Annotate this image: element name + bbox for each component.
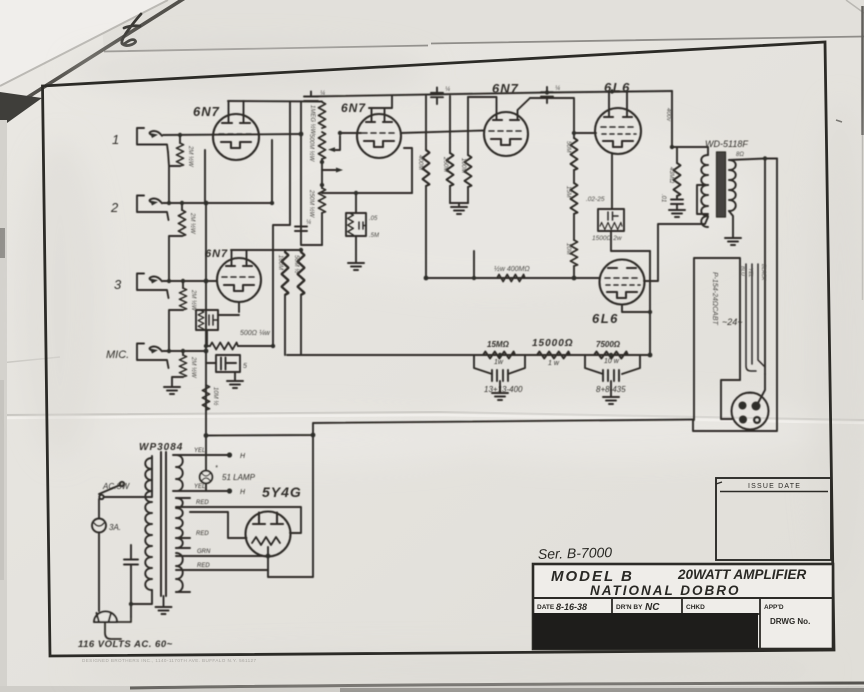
wire HV red top to V7 plate: [190, 507, 301, 533]
svg-text:51 LAMP: 51 LAMP: [222, 473, 256, 482]
svg-text:6N7: 6N7: [341, 101, 366, 115]
svg-text:250M ½W: 250M ½W: [308, 189, 315, 219]
scanner shadow wedge under folded corner: [0, 0, 188, 116]
wire primary UL loop: [697, 185, 708, 214]
svg-text:116 VOLTS AC. 60~: 116 VOLTS AC. 60~: [78, 639, 173, 650]
transformer T-PWR secondary heater winding: [176, 455, 190, 491]
tube V7 5Y4G rectifier: [246, 512, 291, 557]
wire V3 coupling down: [273, 102, 290, 346]
paper top edge (scan): [100, 0, 864, 52]
resistor R5 10M (below MIC node): [203, 385, 210, 410]
transformer T-PWR secondary rectifier filament winding: [176, 553, 190, 592]
svg-text:1w: 1w: [494, 359, 504, 366]
resistor R22 43M: [674, 147, 681, 196]
wire bus junction to heater row: [205, 436, 207, 492]
wire B+ to output transformer: [672, 91, 708, 155]
ground (C9): [603, 397, 619, 404]
capacitor C6 (coupling top 2): [541, 87, 553, 103]
svg-text:400v: 400v: [665, 108, 671, 122]
wire bias row: [287, 354, 650, 356]
svg-text:¼: ¼: [555, 86, 560, 92]
wire B plus bottom bus: [206, 420, 693, 436]
ground (MIC resistor): [164, 387, 180, 394]
black blob bottom row: [533, 613, 758, 649]
resistor R20 15000 ohm: [537, 352, 570, 359]
svg-text:NC: NC: [645, 602, 660, 613]
svg-text:ISSUE DATE: ISSUE DATE: [748, 483, 801, 490]
small value labels: [187, 86, 766, 405]
svg-text:DATE: DATE: [537, 604, 555, 611]
wire J3 grid line: [163, 280, 217, 282]
svg-text:43MΩ: 43MΩ: [668, 167, 674, 184]
socket SPK speaker plug: [732, 393, 769, 430]
ground (mic cap): [227, 381, 243, 388]
svg-text:100M: 100M: [460, 158, 466, 173]
wire V2 grid left hook: [340, 132, 361, 134]
tube V2 6N7: [357, 114, 401, 158]
svg-text:P-154-24ΩCABT: P-154-24ΩCABT: [711, 272, 718, 326]
wire secondary top to socket column: [729, 159, 777, 161]
wire V6 plate path to transformer: [644, 217, 708, 281]
ground (C3): [348, 263, 364, 270]
top-right corner fold: [846, 0, 864, 13]
wire grid return row: [322, 192, 412, 194]
svg-text:8Ω: 8Ω: [736, 152, 744, 158]
svg-text:CHKD: CHKD: [686, 604, 705, 611]
resistor R9 250M: [447, 96, 454, 203]
capacitor C11 line filter: [124, 545, 138, 604]
svg-text:2M ½W: 2M ½W: [187, 145, 194, 168]
tube V1 6N7: [213, 114, 259, 160]
potentiometer P2 wiper arrow: [322, 168, 343, 173]
capacitor C4 box (V3 cathode): [196, 302, 239, 346]
wire primary bottom leg: [131, 590, 152, 604]
svg-text:2M ½W: 2M ½W: [189, 212, 196, 235]
svg-text:3: 3: [114, 277, 122, 292]
svg-text:WP3084: WP3084: [139, 442, 183, 453]
resistor R16 10M: [571, 240, 578, 278]
wire HV red bottom to V7 plate 2: [190, 512, 247, 538]
resistor R7 250M: [319, 159, 326, 245]
capacitor C5 (coupling top): [431, 88, 443, 105]
transformer T-OUT primary: [701, 155, 708, 227]
right scan edge: [861, 6, 864, 135]
folded corner flap: [0, 0, 168, 86]
resistor R8 (coupling load): [423, 96, 430, 278]
resistor R15 15M: [571, 183, 578, 240]
svg-text:5: 5: [243, 363, 247, 370]
speaker cable wires: [746, 264, 765, 371]
svg-text:2M ½W: 2M ½W: [190, 356, 197, 379]
svg-text:NATIONAL DOBRO: NATIONAL DOBRO: [590, 583, 741, 598]
svg-text:8-16-38: 8-16-38: [556, 602, 587, 612]
svg-text:RED: RED: [196, 500, 209, 506]
wire V1 loop to J2 line: [205, 140, 272, 203]
svg-text:BLU: BLU: [739, 266, 745, 276]
tube V3 6N7: [217, 258, 261, 302]
svg-text:YEL: YEL: [194, 484, 205, 490]
wire secondary bottom to ground: [729, 211, 733, 237]
svg-text:10M ½: 10M ½: [212, 387, 219, 405]
resistor R2 2M (input 2): [169, 203, 186, 281]
capacitor C3 box (V2 cathode bypass): [346, 193, 366, 262]
capacitor C2 on column B: [295, 227, 307, 232]
pilot lamp 51: [200, 471, 213, 484]
wire V7 filament bottom to B+: [268, 435, 313, 577]
tube V6 6L6: [600, 260, 645, 305]
transformer T-OUT core: [717, 152, 726, 217]
jack J2 input 2: [137, 196, 169, 221]
title block outer box: [533, 564, 833, 649]
svg-text:.01: .01: [660, 194, 666, 202]
svg-text:DR'N BY: DR'N BY: [616, 604, 643, 611]
resistor R21 7500 ohm: [594, 352, 628, 359]
resistor R10 250M: [465, 97, 472, 203]
field coil box: [694, 258, 740, 420]
wire V1 plate leads: [229, 101, 244, 123]
bottom scan edge: [0, 683, 864, 692]
capacitor C10 .01: [671, 196, 683, 209]
svg-text:¼: ¼: [445, 87, 450, 93]
arrow H heater 1: [227, 452, 232, 457]
wire V5 grid tap: [574, 132, 596, 134]
info row cells: [533, 598, 760, 649]
svg-text:WD-5118F: WD-5118F: [705, 139, 748, 149]
wire V5 plate leads: [609, 91, 627, 117]
jack J4 MIC: [137, 344, 169, 369]
wire filament winding red return: [190, 569, 268, 571]
potentiometer P1 500M volume: [319, 132, 341, 159]
wire V3 plate leads: [232, 250, 247, 266]
jack J3 input 3: [137, 274, 169, 299]
main node column: [205, 203, 207, 436]
svg-text:¼: ¼: [306, 220, 311, 226]
resistor R13 500 ohm row: [206, 343, 273, 350]
svg-text:.05: .05: [369, 216, 378, 222]
svg-text:20WATT AMPLIFIER: 20WATT AMPLIFIER: [677, 567, 807, 582]
svg-text:DESIGNED BROTHERS INC., 1140-1: DESIGNED BROTHERS INC., 1140-1170TH AVE.…: [82, 658, 257, 663]
svg-text:1MEG ½W: 1MEG ½W: [309, 105, 316, 136]
wire V3 plate bus: [231, 249, 301, 251]
tube V4 6N7 phase inverter: [484, 112, 528, 156]
wire voice coil pair down: [765, 159, 777, 431]
wire MIC line: [163, 350, 206, 352]
ground (C8): [492, 393, 508, 400]
svg-text:2M ½W: 2M ½W: [190, 289, 197, 312]
svg-text:15MΩ: 15MΩ: [487, 340, 510, 349]
wire V2 plate leads: [369, 96, 392, 122]
wire J2 line: [163, 202, 272, 204]
transformer T-PWR primary coil: [145, 458, 152, 590]
wire splitter output row: [426, 277, 600, 279]
wire to socket pin: [758, 374, 765, 403]
svg-text:250M: 250M: [442, 156, 448, 172]
svg-text:Ser. B-7000: Ser. B-7000: [538, 544, 613, 562]
svg-text:10M: 10M: [565, 243, 571, 255]
wire V4 cathode drop: [473, 251, 475, 278]
svg-text:6N7: 6N7: [205, 248, 228, 260]
svg-text:GRN: GRN: [197, 549, 211, 555]
svg-text:1500Ω 2w: 1500Ω 2w: [592, 235, 623, 242]
svg-text:RED: RED: [197, 563, 210, 569]
svg-text:5Y4G: 5Y4G: [262, 484, 302, 500]
svg-text:~24~: ~24~: [722, 317, 743, 327]
divider: [533, 597, 833, 599]
svg-text:YEL: YEL: [747, 268, 753, 278]
wire heater row 2: [173, 490, 231, 492]
svg-text:6N7: 6N7: [193, 104, 220, 119]
svg-text:.02-25: .02-25: [586, 196, 605, 203]
wire V6 cathode to bias row: [622, 305, 650, 356]
resistor R4 (MIC grid): [172, 351, 187, 386]
pencil squiggle: [122, 14, 141, 46]
svg-text:.5M: .5M: [369, 233, 379, 239]
svg-text:½w 400MΩ: ½w 400MΩ: [494, 265, 530, 273]
wire V4 right plate feed: [530, 98, 574, 138]
svg-text:1: 1: [112, 132, 119, 147]
svg-text:15M: 15M: [565, 186, 571, 198]
ground (R9 R10): [450, 203, 468, 214]
resistor R12 (V3 load b): [298, 252, 305, 355]
fuse F1 3A: [92, 499, 106, 611]
resistor R3 2M (input 3): [169, 281, 187, 351]
svg-text:500M ½W: 500M ½W: [308, 134, 315, 163]
wire V2 grid line to V4: [401, 131, 484, 134]
tube V5 6L6: [595, 108, 641, 154]
resistor R11 (V3 load a): [282, 250, 289, 355]
stray mark right: [836, 120, 842, 122]
capacitor C1 (plate bus bypass): [304, 92, 318, 102]
svg-text:50M: 50M: [565, 141, 571, 153]
svg-text:*: *: [215, 465, 218, 472]
jack J1 input 1: [137, 128, 168, 152]
issue date box: [716, 478, 831, 560]
wire V5 cathode to RC: [611, 154, 613, 209]
svg-text:400M: 400M: [417, 155, 423, 170]
svg-text:DRWG No.: DRWG No.: [770, 617, 810, 626]
svg-text:6L6: 6L6: [592, 311, 619, 326]
crease line mid page: [0, 357, 864, 423]
left paper edge shading: [0, 120, 7, 692]
ground (secondary): [725, 238, 741, 245]
capacitor C8 dual electrolytic 13+13-400: [474, 355, 525, 392]
svg-text:2: 2: [110, 200, 119, 215]
wire bias feed column: [649, 251, 651, 312]
wire V4 plate leads: [497, 97, 531, 120]
resistor R14 50M: [571, 138, 578, 183]
wire V2 cathode tap: [404, 148, 412, 193]
wire field coil to socket left: [721, 380, 740, 419]
arrow H heater 2: [227, 488, 232, 493]
svg-text:8+8-435: 8+8-435: [596, 385, 626, 394]
capacitor C7 box with resistor R18 (6L6 bias): [598, 209, 650, 251]
svg-text:APP'D: APP'D: [764, 604, 784, 611]
transformer T-OUT secondary: [729, 160, 736, 211]
ground (transformer core): [156, 596, 172, 614]
svg-text:6L6: 6L6: [604, 80, 631, 95]
capacitor C-mic with box: [206, 355, 240, 380]
title block: [533, 544, 833, 649]
svg-text:RED: RED: [196, 531, 209, 537]
svg-text:50M ½: 50M ½: [293, 255, 300, 273]
svg-text:YEL: YEL: [194, 448, 205, 454]
plug P1: [94, 604, 131, 639]
capacitor C9 dual electrolytic 8+8-435: [585, 355, 640, 396]
switch SW AC: [99, 456, 152, 499]
svg-text:15000Ω: 15000Ω: [532, 338, 574, 349]
wire V4 left plate to R10: [468, 96, 496, 98]
svg-text:BLACK: BLACK: [760, 264, 766, 281]
wire J1 grid line to node column: [163, 134, 301, 135]
svg-text:500Ω ¼w: 500Ω ¼w: [240, 330, 271, 337]
svg-text:3A.: 3A.: [109, 523, 121, 532]
svg-text:1 w: 1 w: [548, 360, 560, 367]
wire plate bus B+ top: [311, 91, 672, 97]
resistor R6 1MEG: [319, 102, 326, 128]
node column B (coupling): [301, 102, 322, 245]
resistor R17 400M row: [497, 275, 525, 282]
wire socket bottom bus: [693, 420, 777, 431]
svg-text:13+13-400: 13+13-400: [484, 385, 523, 394]
svg-text:MIC.: MIC.: [106, 349, 129, 361]
transformer T-PWR secondary HV winding: [176, 498, 190, 548]
svg-text:¼: ¼: [320, 91, 325, 97]
wire heater row 1: [173, 454, 231, 456]
wire filament winding green: [190, 555, 268, 557]
ground (C10): [669, 210, 685, 217]
svg-text:100M: 100M: [277, 255, 283, 270]
resistor R19 15M ohm: [483, 352, 515, 359]
svg-text:7500Ω: 7500Ω: [596, 340, 621, 349]
svg-text:AC.SW: AC.SW: [102, 482, 131, 491]
resistor R1 2M (input 1): [168, 135, 184, 203]
svg-text:6N7: 6N7: [492, 81, 519, 96]
wire plate bus stage1: [228, 100, 322, 103]
transformer T-PWR core: [161, 452, 166, 596]
svg-text:10 w: 10 w: [604, 358, 620, 365]
